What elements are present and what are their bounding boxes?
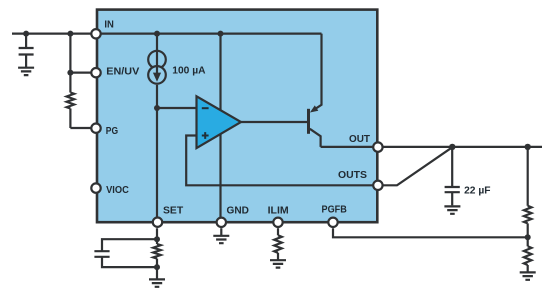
- svg-text:OUT: OUT: [349, 134, 371, 145]
- svg-text:OUTS: OUTS: [338, 170, 367, 181]
- svg-text:VIOC: VIOC: [106, 185, 129, 196]
- svg-text:PG: PG: [106, 126, 118, 137]
- svg-text:PGFB: PGFB: [322, 205, 347, 216]
- svg-text:100 µA: 100 µA: [172, 65, 206, 76]
- svg-text:22 µF: 22 µF: [464, 186, 490, 197]
- svg-text:SET: SET: [163, 205, 184, 216]
- svg-text:ILIM: ILIM: [268, 205, 289, 216]
- svg-text:GND: GND: [227, 205, 249, 216]
- svg-text:EN/UV: EN/UV: [106, 66, 139, 77]
- svg-text:IN: IN: [104, 20, 114, 31]
